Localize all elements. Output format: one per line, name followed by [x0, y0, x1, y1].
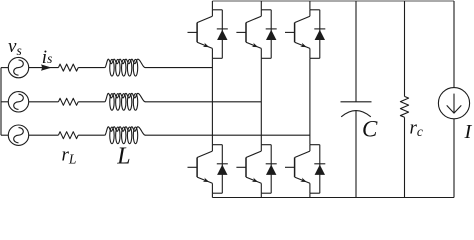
wire top rail to capacitor [355, 1, 357, 102]
wire leg 1 midsection [211, 58, 213, 144]
svg-text:is: is [42, 47, 53, 68]
wire inductor to bridge leg 1 phase a [145, 67, 212, 69]
resistor r_c [400, 96, 408, 117]
wire current source to bottom rail [453, 119, 455, 198]
svg-text:rc: rc [410, 117, 423, 139]
svg-text:rL: rL [62, 145, 77, 167]
wire capacitor to bottom rail [355, 111, 357, 198]
wire source to resistor phase a [29, 67, 59, 69]
igbt Q2 with freewheel diode D2 (top) [236, 10, 276, 59]
resistor r_L phase a [58, 64, 78, 71]
voltage source v_s phase c [8, 125, 28, 145]
igbt Q6 with freewheel diode D6 (bottom) [285, 145, 325, 194]
wire leg 2 midsection [260, 58, 262, 144]
wire resistor r_c to bottom rail [404, 117, 406, 197]
current source I [438, 88, 469, 119]
wire inductor to bridge leg 3 phase c [145, 134, 310, 136]
wire resistor to inductor phase c [78, 134, 105, 136]
capacitor C [341, 102, 372, 117]
igbt Q5 with freewheel diode D5 (bottom) [236, 145, 276, 194]
svg-text:vs: vs [8, 36, 22, 58]
wire top rail to resistor r_c [404, 1, 406, 96]
wire leg 2 lower cell to bottom rail [260, 193, 262, 197]
wire resistor to inductor phase b [78, 101, 105, 103]
igbt Q1 with freewheel diode D1 (top) [188, 10, 228, 59]
wire bus to source phase a [1, 67, 8, 69]
wire inductor to bridge leg 2 phase b [145, 101, 261, 103]
wire resistor to inductor phase a [78, 67, 105, 69]
inductor L phase b [105, 93, 146, 110]
wire source to resistor phase c [29, 134, 59, 136]
wire bus to source phase b [1, 101, 8, 103]
wire leg 1 lower cell to bottom rail [211, 193, 213, 197]
wire leg 3 midsection [309, 58, 311, 144]
wire dc bus positive rail [212, 0, 454, 2]
resistor r_L phase b [58, 98, 78, 105]
svg-text:I: I [464, 121, 473, 143]
igbt Q4 with freewheel diode D4 (bottom) [188, 145, 228, 194]
wire dc bus negative rail [212, 197, 454, 199]
inductor L phase c [105, 127, 146, 144]
voltage source v_s phase b [8, 92, 28, 112]
svg-text:C: C [362, 117, 378, 142]
inductor L phase a [105, 59, 146, 76]
current arrow i_s [41, 64, 52, 70]
wire bus to source phase c [1, 134, 8, 136]
resistor r_L phase c [58, 132, 78, 139]
svg-text:L: L [116, 144, 130, 170]
wire top rail to current source [453, 1, 455, 88]
voltage source v_s phase a [8, 57, 28, 77]
wire left phase bus [0, 68, 2, 136]
wire leg 2 top rail to upper cell [260, 1, 262, 10]
wire leg 3 top rail to upper cell [309, 1, 311, 10]
igbt Q3 with freewheel diode D3 (top) [285, 10, 325, 59]
wire source to resistor phase b [29, 101, 59, 103]
wire leg 1 top rail to upper cell [211, 1, 213, 10]
wire leg 3 lower cell to bottom rail [309, 193, 311, 197]
